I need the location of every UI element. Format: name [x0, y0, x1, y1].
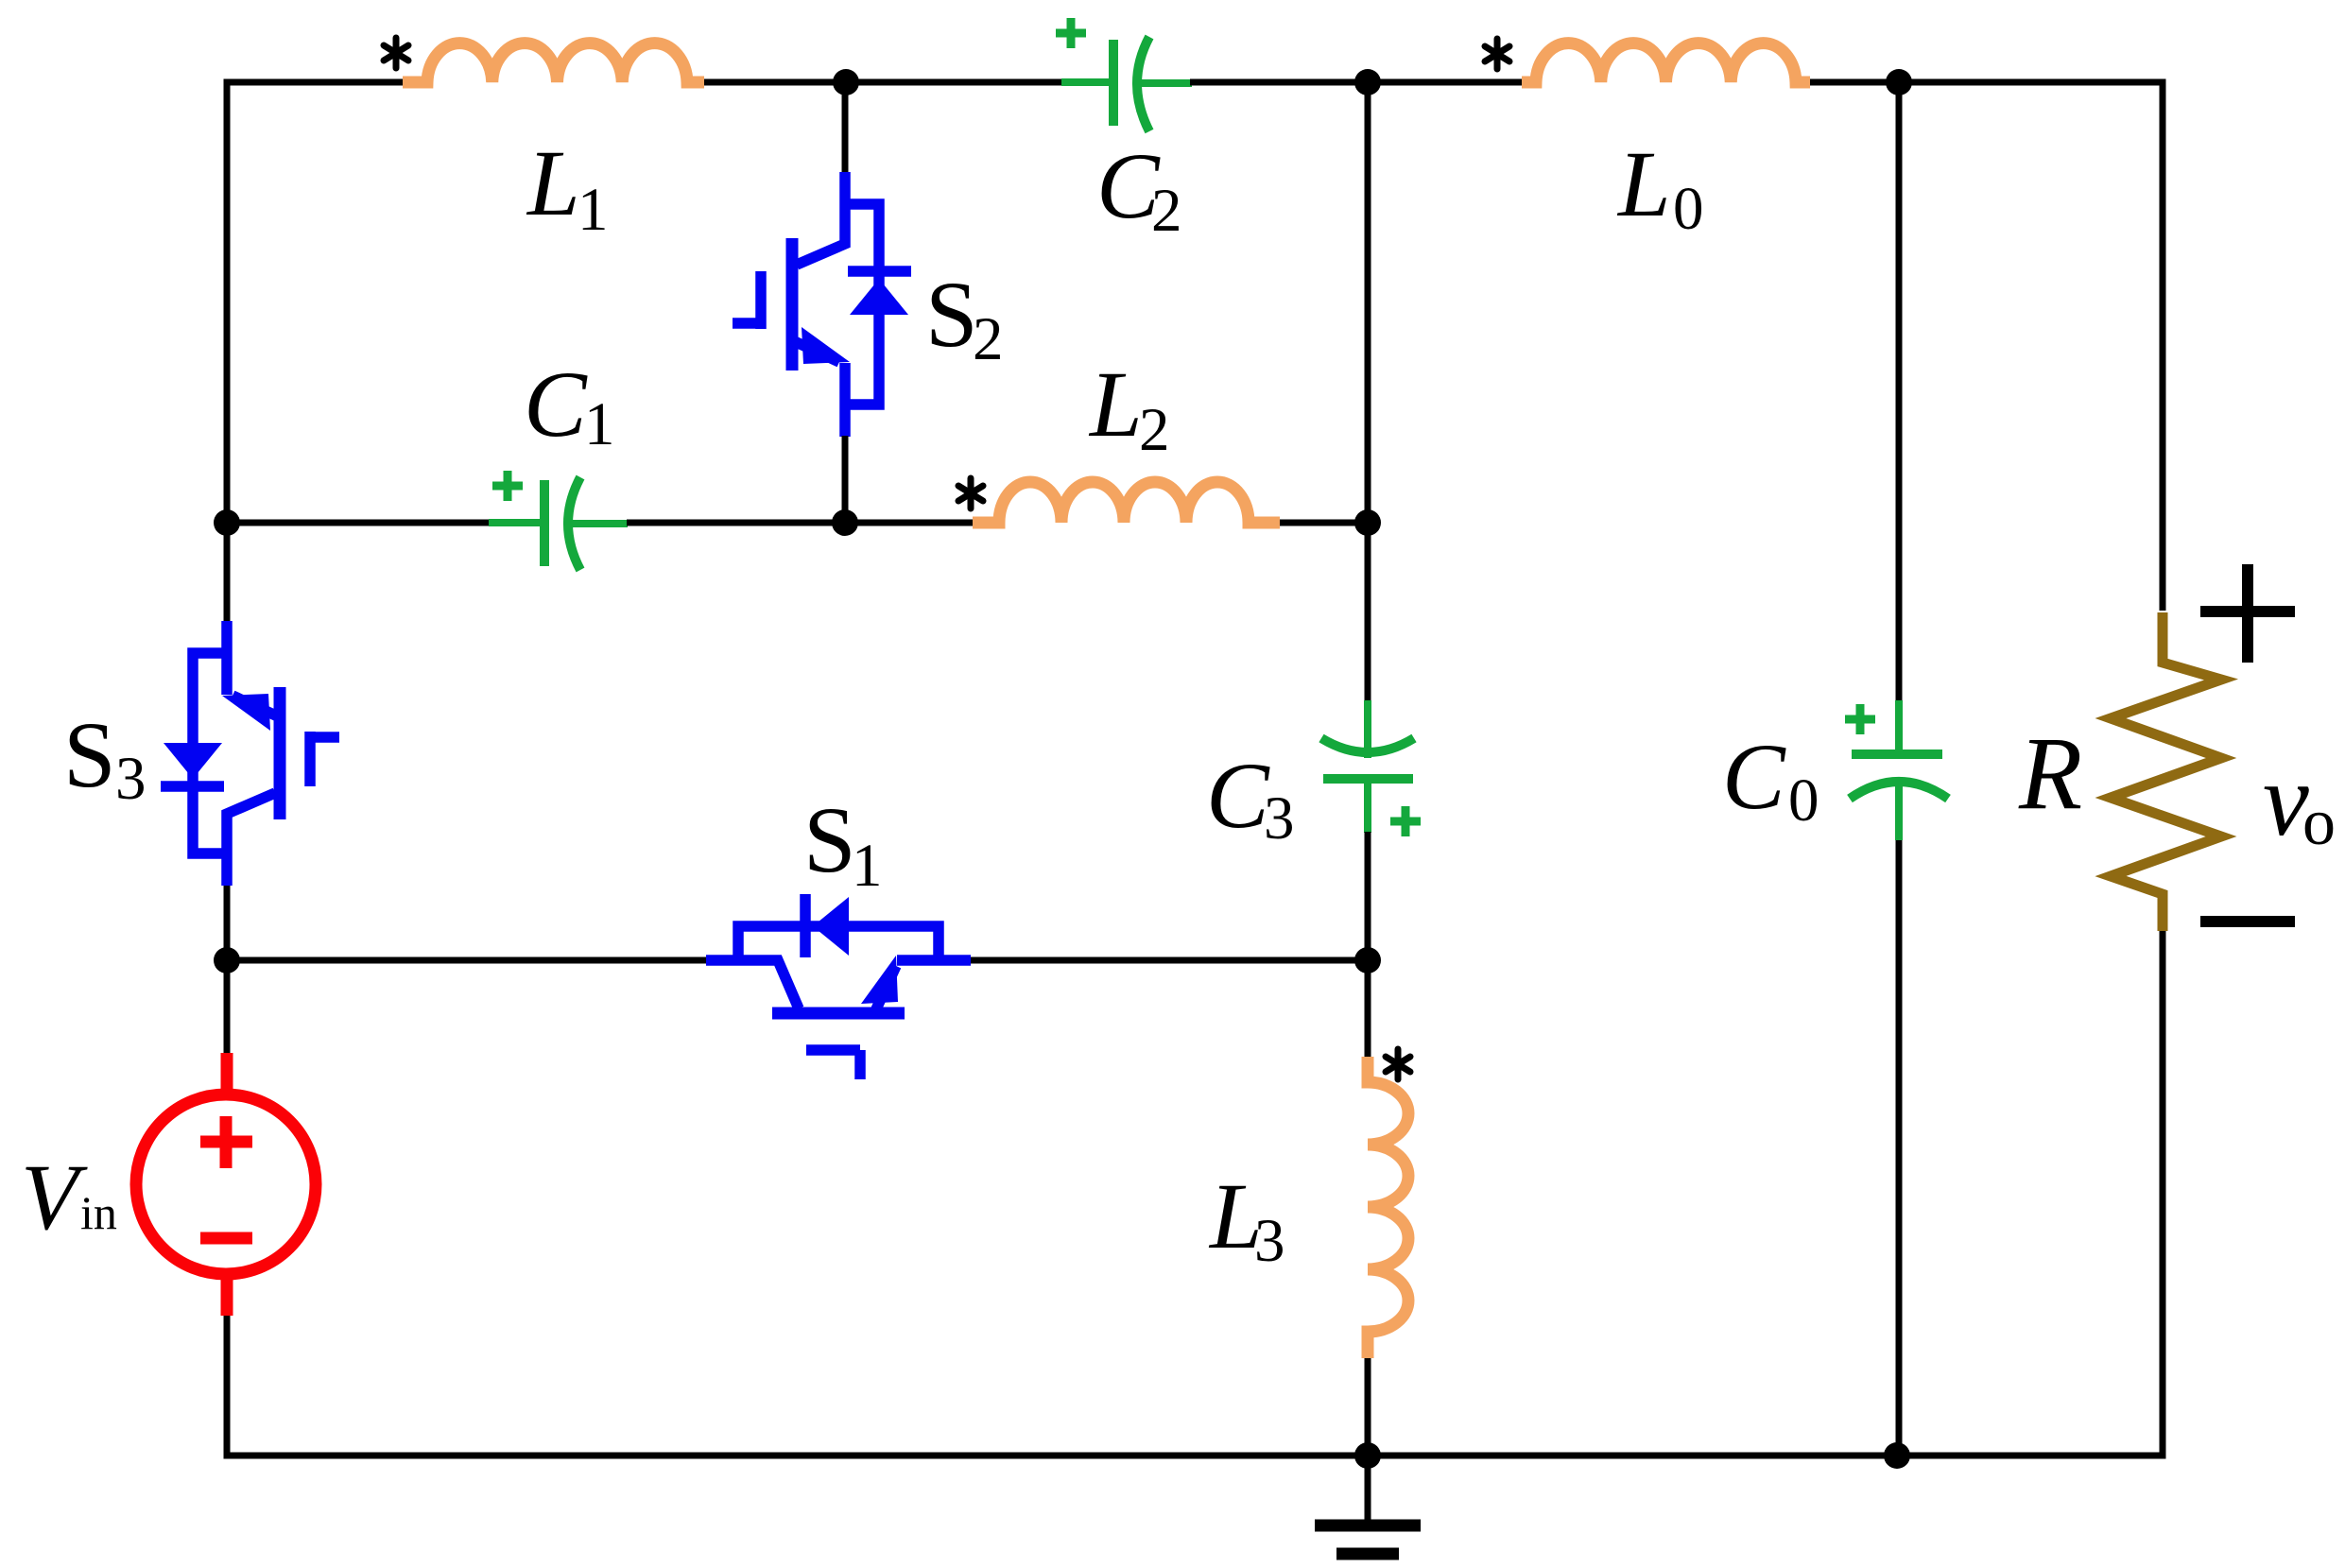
wire: mid bus C1 left segment [227, 520, 541, 526]
transistor S1 (IGBT with freewheel diode) [706, 787, 971, 1079]
node: left bus / S1 row junction [214, 947, 240, 974]
node: S1 row / middle column junction [1354, 947, 1381, 974]
svg-text:C: C [1206, 743, 1270, 848]
wire: middle column C3 to L3 [1365, 832, 1371, 1057]
svg-text:o: o [2302, 786, 2336, 859]
svg-text:2: 2 [1151, 177, 1182, 245]
svg-text:S: S [803, 787, 856, 892]
wire: top bus C2 to L0 [1190, 79, 1522, 86]
svg-text:1: 1 [584, 390, 615, 458]
svg-text:1: 1 [578, 176, 609, 244]
svg-text:S: S [925, 262, 978, 367]
wire: mid bus L2 to middle column [1280, 520, 1368, 526]
wire: mid bus C1 to L2 [627, 520, 973, 526]
svg-text:2: 2 [1139, 396, 1170, 464]
wire: middle column top (node to C3) [1365, 82, 1371, 704]
node: mid bus / middle column junction [1354, 509, 1381, 536]
node: left bus / C1 junction [214, 509, 240, 536]
transistor S3 (IGBT with freewheel diode) [63, 523, 339, 1053]
wire: C0 column bottom segment [1896, 840, 1903, 1456]
output voltage vo minus mark [2200, 916, 2295, 927]
svg-text:in: in [80, 1186, 117, 1239]
voltage source Vin [21, 1053, 316, 1316]
wire: S1 row left segment [227, 957, 706, 964]
svg-text:3: 3 [1254, 1207, 1285, 1275]
svg-text:3: 3 [1264, 784, 1295, 853]
node: bottom bus / C0 column junction [1884, 1442, 1910, 1469]
inductor L2 [958, 352, 1280, 523]
inductor L0 [1485, 39, 1810, 243]
capacitor C3 [1206, 700, 1421, 853]
svg-text:L: L [1088, 352, 1143, 457]
ground [1315, 1456, 1421, 1554]
output voltage vo plus mark [2200, 564, 2295, 663]
svg-text:L: L [1616, 131, 1671, 236]
wire: S1 row right segment [971, 957, 1368, 964]
svg-text:R: R [2018, 715, 2082, 831]
wire: top-left corner run (left bus upper + top bus to L1) [227, 82, 403, 523]
svg-text:S: S [63, 702, 116, 807]
node: mid bus / S2 emitter junction [832, 509, 858, 536]
svg-text:C: C [524, 352, 588, 457]
node: bottom bus / ground junction [1354, 1442, 1381, 1469]
svg-text:0: 0 [1673, 175, 1704, 243]
svg-text:V: V [21, 1145, 88, 1249]
svg-text:L: L [526, 130, 580, 235]
svg-text:C: C [1722, 724, 1786, 829]
wire: top bus L1 to C2 [704, 79, 1112, 86]
node: top bus / C0 column junction [1886, 69, 1912, 95]
label vo [2263, 742, 2336, 859]
svg-text:0: 0 [1788, 767, 1819, 835]
wire: middle column L3 to bottom bus [1365, 1358, 1371, 1456]
wire: top bus L0 to top-right corner down to R [1810, 82, 2163, 611]
node: top bus / S2 collector junction [833, 69, 859, 95]
node: top bus / middle column junction [1354, 69, 1381, 95]
resistor R [2018, 612, 2221, 931]
svg-text:3: 3 [115, 745, 147, 813]
wire: bottom bus ground node to bottom-right corner up to R [1368, 931, 2163, 1456]
svg-text:1: 1 [852, 832, 883, 900]
transistor S2 (IGBT with freewheel diode) [733, 82, 1004, 523]
inductor L1 [384, 38, 704, 244]
wire: bottom-left corner run (Vin to ground node) [227, 1316, 1368, 1456]
capacitor C2 [1056, 18, 1192, 245]
capacitor C0 [1722, 700, 1948, 840]
capacitor C1 [489, 352, 628, 570]
inductor L3 [1208, 1049, 1410, 1358]
wire: C0 column top segment [1896, 82, 1903, 702]
svg-text:2: 2 [973, 305, 1004, 373]
